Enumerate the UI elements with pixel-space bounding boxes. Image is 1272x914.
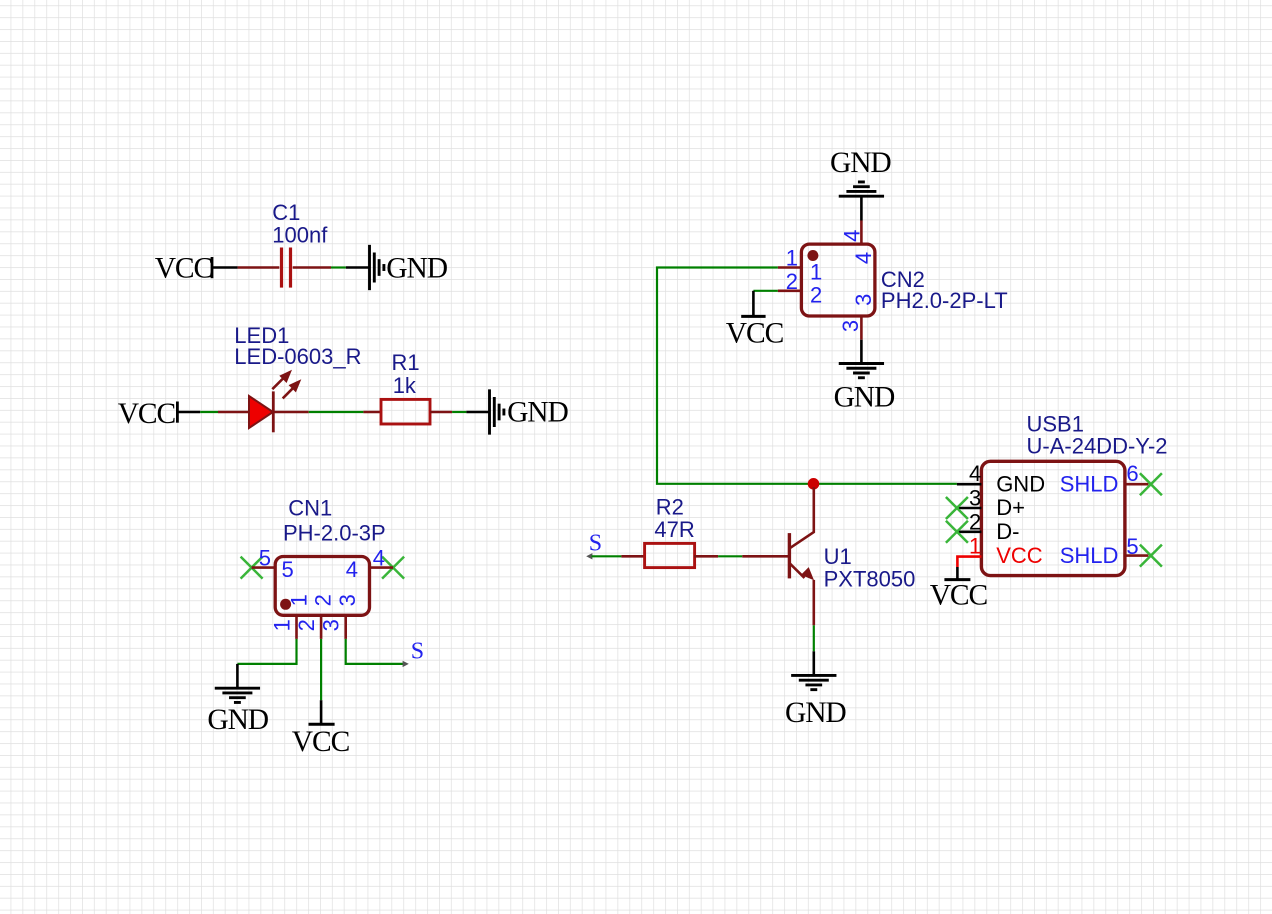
CN1 pin 5 <box>252 566 276 569</box>
net flag GND (CN1) <box>207 664 268 736</box>
svg-text:1: 1 <box>786 246 798 271</box>
net flag GND (CN2 top) <box>830 147 891 220</box>
svg-text:2: 2 <box>786 269 798 294</box>
net flag VCC (LED row) <box>118 398 201 430</box>
svg-text:4: 4 <box>851 252 876 264</box>
CN2 pin 3 <box>860 316 863 340</box>
svg-text:5: 5 <box>1126 534 1138 559</box>
svg-text:2: 2 <box>311 594 336 606</box>
USB1 pin 1 <box>957 557 981 567</box>
CN1 pin 2 <box>320 615 323 639</box>
wire (C1 to GND) <box>331 266 346 268</box>
CN1 pin 1 <box>295 615 298 639</box>
svg-text:S: S <box>589 531 602 557</box>
no-connect X (USB1 pin 3) <box>946 497 968 519</box>
net flag GND (LED row) <box>466 389 568 434</box>
svg-text:GND: GND <box>386 253 447 285</box>
svg-text:LED-0603_R: LED-0603_R <box>234 344 361 369</box>
svg-text:4: 4 <box>346 557 358 582</box>
svg-text:1: 1 <box>969 534 981 559</box>
CN2 pin 1 dot <box>807 250 818 261</box>
svg-text:1k: 1k <box>393 373 417 398</box>
wire (CN2 pin1 / collector / USB pin4 net) <box>657 268 957 484</box>
svg-text:100nf: 100nf <box>272 223 328 248</box>
CN2 pin 2 <box>778 289 802 292</box>
CN1 pin 3 <box>344 615 347 639</box>
svg-text:3: 3 <box>969 485 981 510</box>
wire (R1 to GND) <box>452 411 466 413</box>
net port S arrow (CN1) <box>403 661 409 667</box>
USB1 pin 2 <box>957 530 982 533</box>
resistor R2 <box>621 543 718 567</box>
wire (CN1 pin1 to GND) <box>237 639 296 664</box>
connector USB1 body <box>981 461 1125 575</box>
svg-text:3: 3 <box>319 619 344 631</box>
svg-text:4: 4 <box>373 545 385 570</box>
net flag GND (CN2 bottom) <box>834 340 895 414</box>
svg-text:VCC: VCC <box>292 726 350 758</box>
no-connect X (USB1 pin 6) <box>1140 473 1162 495</box>
net port S arrow (R2) <box>586 553 592 559</box>
CN1 pin 4 <box>370 566 394 569</box>
net flag VCC (USB1) <box>930 567 988 611</box>
svg-text:S: S <box>411 639 424 665</box>
svg-text:1: 1 <box>810 259 822 284</box>
USB1 pin 3 <box>957 507 982 510</box>
svg-text:PXT8050: PXT8050 <box>824 566 916 591</box>
svg-text:GND: GND <box>834 381 895 413</box>
CN1 pin 1 dot <box>280 599 291 610</box>
svg-text:PH-2.0-3P: PH-2.0-3P <box>283 520 386 545</box>
svg-text:GND: GND <box>507 397 568 429</box>
transistor Q U1 <box>742 487 814 625</box>
svg-text:VCC: VCC <box>155 253 213 285</box>
svg-text:1: 1 <box>270 619 295 631</box>
svg-text:3: 3 <box>335 594 360 606</box>
capacitor C1 <box>238 248 331 288</box>
USB1 pin 6 <box>1125 483 1149 486</box>
svg-text:GND: GND <box>830 147 891 179</box>
net flag GND (U1) <box>785 651 846 729</box>
svg-text:VCC: VCC <box>726 317 784 349</box>
svg-text:PH2.0-2P-LT: PH2.0-2P-LT <box>881 288 1008 313</box>
CN2 pin 4 <box>860 221 863 245</box>
wire (CN1 pin2 to VCC) <box>320 639 322 700</box>
svg-text:6: 6 <box>1126 461 1138 486</box>
svg-text:U1: U1 <box>824 544 852 569</box>
wire (LED1 to R1) <box>309 411 364 413</box>
svg-text:GND: GND <box>785 697 846 729</box>
no-connect X (CN1 pin 5) <box>241 557 263 579</box>
svg-text:D-: D- <box>996 519 1019 544</box>
svg-text:R1: R1 <box>392 350 420 375</box>
USB1 pin 4 <box>957 483 982 486</box>
svg-text:2: 2 <box>294 619 319 631</box>
svg-text:5: 5 <box>259 545 271 570</box>
svg-text:1: 1 <box>286 594 311 606</box>
svg-text:SHLD: SHLD <box>1060 471 1119 496</box>
net flag VCC (CN2) <box>726 291 784 350</box>
svg-text:4: 4 <box>839 230 864 242</box>
LED LED1 <box>218 370 309 433</box>
svg-text:3: 3 <box>838 320 863 332</box>
svg-text:5: 5 <box>282 557 294 582</box>
svg-text:VCC: VCC <box>930 579 988 611</box>
connector CN2 body <box>801 244 875 316</box>
net flag GND (C1 row) <box>346 245 448 290</box>
wire (VCC to LED1) <box>200 411 218 413</box>
CN2 pin 1 <box>778 266 802 269</box>
svg-text:C1: C1 <box>272 200 300 225</box>
svg-text:GND: GND <box>207 704 268 736</box>
svg-text:47R: 47R <box>654 517 694 542</box>
svg-text:VCC: VCC <box>996 543 1043 568</box>
svg-text:U-A-24DD-Y-2: U-A-24DD-Y-2 <box>1027 434 1168 459</box>
resistor R1 <box>363 399 452 424</box>
wire (S to R2) <box>592 555 622 557</box>
svg-text:CN1: CN1 <box>288 495 332 520</box>
no-connect X (CN1 pin 4) <box>382 557 404 579</box>
svg-text:4: 4 <box>969 461 981 486</box>
USB1 pin 5 <box>1125 554 1149 557</box>
svg-text:2: 2 <box>810 282 822 307</box>
svg-text:2: 2 <box>969 510 981 535</box>
no-connect X (USB1 pin 2) <box>946 521 968 543</box>
svg-text:SHLD: SHLD <box>1060 543 1119 568</box>
svg-text:R2: R2 <box>656 495 684 520</box>
svg-text:GND: GND <box>996 471 1045 496</box>
net flag VCC (C1 row) <box>155 253 238 285</box>
junction dot <box>808 478 820 490</box>
wire (U1 emitter to GND) <box>813 625 815 651</box>
no-connect X (USB1 pin 5) <box>1140 545 1162 567</box>
wire (R2 to U1 base) <box>718 555 742 557</box>
svg-text:D+: D+ <box>996 495 1025 520</box>
wire (CN2 pin2 to VCC) <box>753 290 777 292</box>
wire (CN1 pin3 to port S) <box>346 639 403 664</box>
connector CN1 body <box>275 557 369 616</box>
net flag VCC (CN1) <box>292 700 350 758</box>
svg-text:VCC: VCC <box>118 398 176 430</box>
svg-text:3: 3 <box>851 294 876 306</box>
